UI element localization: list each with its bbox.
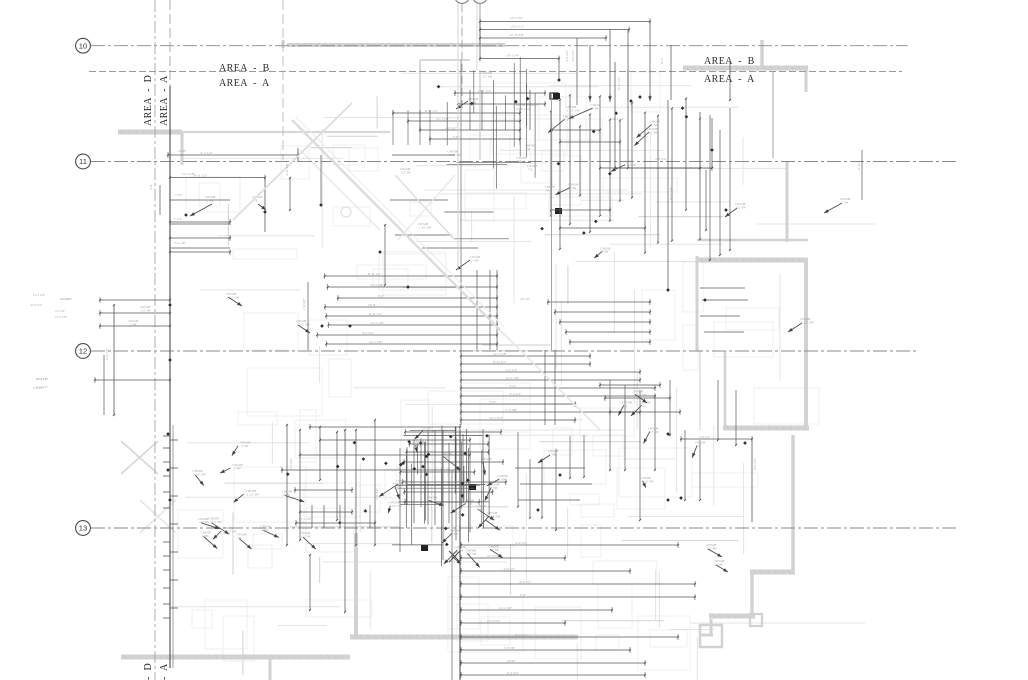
column line vertical upper — [282, 0, 284, 160]
vertical dimension forest upper right-center — [548, 94, 701, 258]
svg-text:8'-11 1/2": 8'-11 1/2" — [425, 109, 439, 113]
svg-text:1'-5 5/8": 1'-5 5/8" — [506, 408, 518, 412]
extra central dimension density — [388, 426, 503, 567]
svg-text:13: 13 — [79, 524, 87, 533]
label AREA - B top right — [704, 56, 755, 67]
vertical forest extension x>700 — [700, 108, 748, 332]
svg-text:20'-1 1/2": 20'-1 1/2" — [511, 25, 525, 29]
extra upper-middle density — [422, 57, 555, 248]
small vertical dims center-left — [285, 155, 386, 286]
svg-text:1' SW: 1' SW — [233, 467, 241, 471]
svg-text:12'-1 1/8": 12'-1 1/8" — [499, 606, 513, 610]
svg-text:7'A: 7'A — [526, 147, 530, 151]
svg-text:10'-1 1/4": 10'-1 1/4" — [611, 117, 625, 121]
tiny dimension texts left margin — [30, 293, 71, 390]
label AREA - A top right — [704, 74, 755, 85]
svg-text:7'-2 3/4": 7'-2 3/4" — [289, 458, 293, 470]
svg-text:1 1/2' SW: 1 1/2' SW — [624, 163, 637, 167]
svg-text:22'-3 3/4": 22'-3 3/4" — [510, 16, 524, 20]
svg-text:1' SW: 1' SW — [549, 452, 557, 456]
svg-text:11: 11 — [79, 157, 87, 166]
grid bubble 10 — [76, 38, 91, 53]
svg-text:16'-8": 16'-8" — [178, 149, 187, 153]
svg-text:1'-6 3/4": 1'-6 3/4" — [375, 488, 379, 500]
svg-text:1/2' SW: 1/2' SW — [301, 535, 311, 539]
grid line 13 — [91, 527, 957, 529]
grid line 11 — [91, 161, 957, 163]
structural vertical lines center — [458, 60, 552, 350]
svg-text:6'-0 1/2": 6'-0 1/2" — [753, 458, 757, 470]
grid bubble top A — [455, 0, 470, 3]
svg-text:12'-1 1/8": 12'-1 1/8" — [493, 352, 507, 356]
svg-text:8'-1": 8'-1" — [660, 57, 664, 64]
svg-text:3'-2 1/2": 3'-2 1/2" — [571, 50, 575, 62]
svg-text:1' SW: 1' SW — [206, 198, 214, 202]
svg-text:1 1/2' SW: 1 1/2' SW — [801, 320, 814, 324]
label AREA - A matchline vertical — [159, 75, 170, 126]
grid line 12 — [91, 350, 918, 352]
svg-text:1'-10": 1'-10" — [174, 193, 183, 197]
svg-text:15'-3 1/8": 15'-3 1/8" — [55, 315, 68, 319]
svg-text:1/2' SW: 1/2' SW — [141, 308, 151, 312]
svg-text:6'-2 3/4": 6'-2 3/4" — [507, 671, 519, 675]
svg-text:AREA - A: AREA - A — [704, 74, 755, 85]
svg-text:- D: - D — [143, 663, 154, 680]
area separation dashed line top — [89, 71, 902, 73]
svg-text:2' SW: 2' SW — [129, 322, 137, 326]
svg-text:3'-6": 3'-6" — [490, 400, 497, 404]
svg-text:7'A: 7'A — [517, 159, 521, 163]
svg-text:2' SW: 2' SW — [841, 200, 849, 204]
label D bottom matchline — [143, 663, 154, 680]
svg-text:4'-0 1/4": 4'-0 1/4" — [503, 567, 515, 571]
svg-text:1' SW: 1' SW — [592, 107, 600, 111]
svg-text:(TYP) 1/2'A: (TYP) 1/2'A — [516, 107, 530, 111]
pale floor-plan underlay — [171, 0, 875, 680]
svg-text:1 1/2' SW: 1 1/2' SW — [422, 429, 435, 433]
svg-text:1 1/2' SW: 1 1/2' SW — [224, 529, 237, 533]
svg-text:2' SW: 2' SW — [715, 562, 723, 566]
grid line 10 — [91, 45, 908, 47]
svg-text:7'A: 7'A — [237, 536, 241, 540]
svg-text:4'-4 1/4": 4'-4 1/4" — [565, 50, 569, 62]
svg-text:1 1/2' SW: 1 1/2' SW — [419, 225, 432, 229]
label A bottom matchline — [159, 663, 170, 680]
svg-text:9'-4 1/4": 9'-4 1/4" — [201, 151, 213, 155]
svg-text:1 1/2' SW: 1 1/2' SW — [567, 108, 580, 112]
svg-text:4'-0 1/4": 4'-0 1/4" — [55, 309, 66, 313]
svg-text:1 1/2' SW: 1 1/2' SW — [488, 515, 501, 519]
svg-text:7'A: 7'A — [528, 168, 532, 172]
svg-text:12: 12 — [79, 347, 87, 356]
vertical spine center — [452, 430, 460, 680]
svg-text:2' SW: 2' SW — [471, 258, 479, 262]
label AREA - D matchline vertical — [143, 75, 154, 126]
grid bubble top B — [462, 0, 487, 110]
bottom-right wall box and tags — [706, 543, 762, 626]
svg-text:16'-8": 16'-8" — [507, 659, 516, 663]
svg-text:10'-1 3/4": 10'-1 3/4" — [506, 54, 520, 58]
grid bubble 12 — [76, 344, 91, 359]
svg-text:6'-2 3/4": 6'-2 3/4" — [520, 580, 532, 584]
svg-text:9'-4 1/4": 9'-4 1/4" — [33, 386, 44, 390]
pale roof diagonals center-left — [233, 103, 600, 430]
svg-text:AREA - A: AREA - A — [159, 75, 170, 126]
diagonal braces lower-left — [121, 441, 176, 533]
svg-text:10: 10 — [79, 41, 87, 50]
svg-text:3'-6": 3'-6" — [378, 294, 385, 298]
svg-text:12'-1 1/8": 12'-1 1/8" — [436, 117, 450, 121]
svg-text:8'-11 1/2": 8'-11 1/2" — [368, 272, 382, 276]
grid bubble 11 — [76, 154, 91, 169]
svg-text:1/2' SW: 1/2' SW — [649, 430, 659, 434]
dimension cluster right-middle — [599, 380, 757, 522]
dimensions right-upper area — [614, 60, 862, 332]
svg-text:6'-9 1/4": 6'-9 1/4" — [105, 348, 109, 360]
svg-text:8'-11 1/2": 8'-11 1/2" — [194, 173, 208, 177]
walls bottom band — [121, 533, 578, 680]
dims top-left near matchline — [149, 148, 299, 255]
svg-text:AREA - A: AREA - A — [219, 78, 270, 89]
svg-text:2' SW: 2' SW — [241, 444, 249, 448]
svg-text:1 1/2' SW: 1 1/2' SW — [209, 520, 222, 524]
svg-text:2'-2 1/4": 2'-2 1/4" — [506, 368, 518, 372]
svg-text:20'-10": 20'-10" — [520, 297, 531, 301]
svg-text:6'-11 1/4": 6'-11 1/4" — [669, 186, 673, 200]
svg-text:1/2' SW: 1/2' SW — [401, 170, 411, 174]
dimensions left of center near grid 12 — [36, 282, 310, 416]
svg-text:AREA - D: AREA - D — [143, 75, 154, 126]
svg-text:12'-1 1/8": 12'-1 1/8" — [370, 283, 384, 287]
svg-text:22'-5 3/4": 22'-5 3/4" — [490, 416, 504, 420]
svg-text:1 1/2' SW: 1 1/2' SW — [193, 473, 206, 477]
label AREA - A top left — [219, 78, 270, 89]
svg-text:10'-1 1/4": 10'-1 1/4" — [36, 377, 49, 381]
svg-text:1 1/4": 1 1/4" — [174, 217, 183, 221]
svg-text:1 1/2' SW: 1 1/2' SW — [389, 504, 402, 508]
svg-text:12'-1 1/8": 12'-1 1/8" — [182, 172, 196, 176]
svg-text:4'-0 1/4": 4'-0 1/4" — [445, 126, 457, 130]
walls top-right along grid 10 — [683, 40, 808, 158]
svg-text:4'-1 1/4": 4'-1 1/4" — [300, 517, 312, 521]
column line D (dash-dot vertical) — [154, 0, 156, 680]
svg-text:1'-5 5/8": 1'-5 5/8" — [60, 297, 71, 301]
svg-text:5'-4 1/8": 5'-4 1/8" — [174, 241, 186, 245]
svg-text:15'-3 1/8": 15'-3 1/8" — [371, 321, 385, 325]
svg-text:3'-6": 3'-6" — [510, 384, 517, 388]
small dims above grid 13 left — [295, 505, 376, 528]
svg-text:9'-4 1/4": 9'-4 1/4" — [510, 392, 522, 396]
svg-text:12'-1 1/8": 12'-1 1/8" — [506, 376, 520, 380]
svg-text:1/2' SW: 1/2' SW — [707, 546, 717, 550]
svg-text:9'-4 1/4": 9'-4 1/4" — [515, 541, 527, 545]
matchline vertical — [170, 0, 173, 668]
svg-text:1' SW: 1' SW — [202, 534, 210, 538]
svg-text:1/2' SW: 1/2' SW — [648, 130, 658, 134]
stacked dimension chains center-left — [316, 250, 498, 350]
dimension cluster bottom-left of center — [192, 419, 471, 613]
svg-text:16'-8": 16'-8" — [368, 303, 377, 307]
matchline tick stubs lower — [163, 432, 259, 618]
svg-text:1 1/2' SW: 1 1/2' SW — [247, 493, 260, 497]
walls upper-center — [283, 40, 505, 130]
infill dims right of central blob — [515, 432, 592, 531]
svg-text:12'-1 1/8": 12'-1 1/8" — [33, 293, 46, 297]
svg-text:7'A: 7'A — [545, 188, 549, 192]
grid bubble 13 — [76, 521, 91, 536]
label AREA - B top left — [219, 63, 270, 74]
svg-text:3'-6": 3'-6" — [520, 593, 527, 597]
svg-text:1'-5 5/8": 1'-5 5/8" — [503, 646, 515, 650]
svg-text:4'-0 1/4": 4'-0 1/4" — [655, 157, 667, 161]
svg-text:8'-11 1/2": 8'-11 1/2" — [617, 76, 621, 90]
svg-text:1'-6 3/4": 1'-6 3/4" — [302, 298, 306, 310]
svg-text:22'-5 3/4": 22'-5 3/4" — [30, 303, 43, 307]
dense dimension blob center — [379, 426, 508, 568]
svg-text:- A: - A — [159, 663, 170, 680]
extra dims upper-center-left — [390, 155, 455, 235]
dimension chains top center — [479, 16, 671, 112]
small dims on matchline — [170, 193, 230, 248]
svg-text:12'-1 1/8": 12'-1 1/8" — [369, 340, 383, 344]
walls bottom-right stepping — [700, 435, 795, 647]
svg-text:2'-2 1/4": 2'-2 1/4" — [699, 435, 711, 439]
svg-text:22'-5 3/4": 22'-5 3/4" — [487, 619, 501, 623]
roof valley diagonal secondary — [300, 150, 380, 230]
dimension stack upper middle — [392, 109, 521, 145]
svg-text:1/2' SW: 1/2' SW — [482, 74, 492, 78]
svg-text:3'-6": 3'-6" — [453, 135, 460, 139]
svg-text:4'-11 3/8": 4'-11 3/8" — [285, 162, 289, 176]
svg-text:5'-6": 5'-6" — [149, 183, 153, 190]
svg-text:6'-2 3/4": 6'-2 3/4" — [362, 331, 374, 335]
svg-text:AREA - B: AREA - B — [219, 63, 270, 74]
wall stub left of matchline — [118, 130, 182, 166]
svg-text:8'-11 1/2": 8'-11 1/2" — [369, 312, 383, 316]
svg-text:1/2' SW: 1/2' SW — [736, 205, 746, 209]
dimension chains bottom center — [460, 541, 696, 678]
svg-text:1' SW: 1' SW — [569, 186, 577, 190]
walls mid-right room — [697, 162, 809, 431]
dimension stack center below grid 12 — [460, 297, 656, 425]
dims upper center with blocking tags — [454, 89, 562, 214]
svg-text:AREA - B: AREA - B — [704, 56, 755, 67]
svg-text:9'-4 1/4": 9'-4 1/4" — [515, 633, 527, 637]
svg-text:8'-11 1/2": 8'-11 1/2" — [493, 360, 507, 364]
svg-text:6'-11": 6'-11" — [857, 161, 861, 170]
svg-text:14'-10 5/8": 14'-10 5/8" — [509, 33, 525, 37]
